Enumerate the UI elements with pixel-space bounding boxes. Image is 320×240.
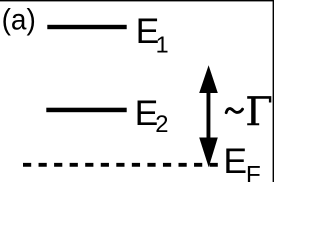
svg-text:E2: E2	[135, 93, 169, 138]
dashed Fermi level line	[23, 163, 219, 167]
double-headed arrow shaft	[206, 92, 210, 139]
svg-text:E1: E1	[136, 11, 169, 58]
level line E2	[46, 108, 126, 113]
top border	[0, 0, 274, 1]
svg-text:(a): (a)	[2, 4, 36, 37]
level line E1	[47, 25, 126, 29]
right border	[273, 0, 274, 182]
label Gamma	[247, 96, 271, 125]
label tilde of ~Gamma	[226, 109, 242, 113]
arrowhead up	[199, 65, 218, 93]
arrowhead down	[199, 138, 218, 168]
svg-text:EF: EF	[223, 141, 260, 182]
